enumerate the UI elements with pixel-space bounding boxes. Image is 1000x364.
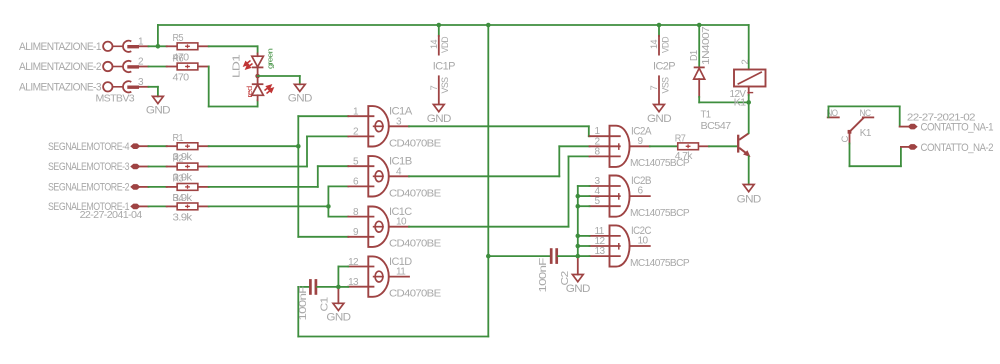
node IC2P VDD tap [657,23,662,28]
svg-text:GND: GND [647,113,672,125]
svg-text:LD1: LD1 [231,54,243,78]
svg-text:470: 470 [173,73,190,84]
svg-text:R7: R7 [675,134,686,145]
diode D1 1N4007 [694,66,705,68]
LED LD1 upper (green) [257,54,259,57]
wire rail to D1 [698,25,700,67]
connector pin ALIMENTAZIONE-1 [103,42,112,51]
wire D1 to relay bottom [698,97,700,103]
wire junction to R5 [158,45,167,47]
wire pin2 to R6 [139,66,149,68]
svg-text:100nF: 100nF [298,286,309,321]
svg-text:VSS: VSS [660,77,671,93]
resistor R5 [167,45,177,47]
svg-text:R1: R1 [173,133,184,144]
svg-text:VSS: VSS [440,77,451,93]
svg-text:T1: T1 [701,109,712,121]
svg-text:ALIMENTAZIONE-1: ALIMENTAZIONE-1 [19,41,101,53]
LED pin middle [257,67,259,84]
wire pin1 to junction [139,45,149,47]
wire IC1B out to IC2A pin2 [409,175,559,177]
svg-text:SEGNALEMOTORE-3: SEGNALEMOTORE-3 [48,161,129,173]
svg-text:GND: GND [737,193,762,205]
wire R6 to LD1 bottom [208,67,210,107]
svg-text:GND: GND [288,93,313,105]
XOR gate IC1D CD4070BE [368,256,388,296]
wire net SM3 row [209,166,307,168]
svg-text:13: 13 [595,246,606,257]
capacitor C2 100nF [488,255,550,257]
pin SEGNALEMOTORE-4 [131,144,140,149]
ground IC2P [654,105,665,112]
pin CONTATTO_NA-1 [908,124,917,129]
svg-text:2: 2 [740,60,751,65]
wire net SM4 row [209,145,299,147]
node SM1 junction [326,204,331,209]
wire SEGNALEMOTORE-4 to R1 [140,145,149,147]
pin SEGNALEMOTORE-1 [131,204,140,209]
svg-text:R2: R2 [173,153,184,164]
node tap IC2C pin11 [576,234,581,239]
resistor R4 3.9k [167,205,177,207]
ground connector pin3 [153,96,164,103]
svg-text:SEGNALEMOTORE-2: SEGNALEMOTORE-2 [48,182,129,194]
svg-text:VDD: VDD [660,36,671,53]
svg-text:GND: GND [427,113,452,125]
node VDD drop top [486,23,491,28]
svg-text:7: 7 [429,86,440,91]
wire net SM1 vertical [327,186,329,216]
wire IC1A out to IC2A pin1 [409,125,589,127]
wire R7 to T1 base [709,145,737,147]
svg-text:1N4007: 1N4007 [700,26,712,65]
svg-text:VDD: VDD [440,36,451,53]
resistor R1 3.9k [167,145,177,147]
svg-text:22-27-2021-02: 22-27-2021-02 [907,111,976,123]
node tap IC2C pin12 [576,244,581,249]
node C1/IC1D junction [336,285,341,290]
node C2/GND junction [576,254,581,259]
wire VDD vertical drop [487,25,489,337]
node SM4 junction [296,144,301,149]
svg-text:6: 6 [638,186,644,197]
wire T1 emitter to GND [748,156,750,184]
svg-text:GND: GND [146,105,171,117]
ground T1 emitter [743,185,754,192]
wire net SM1 row [209,205,329,207]
svg-text:12: 12 [348,257,359,268]
resistor R6 [167,66,177,68]
pin SEGNALEMOTORE-2 [131,185,140,190]
transistor T1 BC547 [737,135,739,153]
wire rail to relay coil [748,25,750,70]
svg-text:MC14075BCP: MC14075BCP [630,258,690,269]
LED LD1 lower (red) [252,83,264,85]
svg-text:CD4070BE: CD4070BE [389,238,441,250]
wire junction to IC1D pin13 [338,286,348,288]
relay coil K1 12V [734,70,766,87]
svg-text:K1: K1 [734,96,747,108]
svg-text:D1: D1 [688,50,700,61]
svg-text:C2: C2 [559,271,571,286]
svg-text:CONTATTO_NA-1: CONTATTO_NA-1 [921,122,994,134]
node LED midpoint [255,74,260,79]
ground C1/IC1D [337,290,339,304]
svg-text:14: 14 [429,40,440,49]
svg-text:MC14075BCP: MC14075BCP [630,208,690,219]
svg-text:C: C [840,136,851,143]
power pins IC1P [438,25,440,36]
svg-text:13: 13 [348,277,359,288]
ground LED [294,84,305,91]
wire net SM4 vertical [297,116,299,237]
svg-text:CD4070BE: CD4070BE [389,288,441,300]
svg-text:100nF: 100nF [538,258,549,293]
wire SM4 to IC1C pin9 [298,236,348,238]
wire SM1 to IC1C pin8 [328,216,348,218]
capacitor C1 100nF [309,279,312,295]
node D1 rail tap [697,23,702,28]
wire SEGNALEMOTORE-1 to R4 [140,205,149,207]
connector pin ALIMENTAZIONE-2 [103,62,112,71]
svg-text:4.7k: 4.7k [675,151,694,162]
pin SEGNALEMOTORE-3 [131,164,140,169]
svg-text:CD4070BE: CD4070BE [389,187,441,199]
power pins IC2P [658,25,660,36]
pin 7 VSS (IC1P) [438,76,440,103]
XOR gate IC1A CD4070BE [368,106,389,146]
svg-text:green: green [268,48,275,69]
wire NO to CONTATTO_NA-1 [828,106,830,117]
svg-text:10: 10 [396,217,407,228]
wire IC2B/IC2C input bus [577,186,579,256]
OR gate IC2B MC14075BCP [610,175,630,216]
wire SEGNALEMOTORE-3 to R2 [140,166,149,168]
svg-text:C1: C1 [318,297,330,312]
svg-text:14: 14 [649,40,660,49]
svg-text:9: 9 [638,136,644,147]
wire pin3 to GND [139,86,149,88]
node VDD tap to C2 [486,254,491,259]
svg-text:22-27-2041-04: 22-27-2041-04 [80,210,143,221]
svg-text:SEGNALEMOTORE-4: SEGNALEMOTORE-4 [48,141,129,153]
wire SM1 to IC1B pin6 [328,185,348,187]
node relay/collector junction [746,100,751,105]
svg-text:CONTATTO_NA-2: CONTATTO_NA-2 [921,142,994,154]
XOR gate IC1B CD4070BE [368,156,388,196]
wire rail drop to R5 [157,25,159,46]
svg-text:R4: R4 [173,193,184,204]
svg-text:CD4070BE: CD4070BE [389,137,441,149]
wire VDD top rail [158,24,749,26]
OR gate IC2A MC14075BCP [610,126,630,167]
wire net SM2 row [209,186,318,188]
svg-text:IC2P: IC2P [653,61,675,73]
LED arrows lower [265,85,274,93]
wire VDD bottom run [298,336,488,338]
relay contact K1 [827,116,840,118]
svg-text:10: 10 [638,236,649,247]
svg-text:NC: NC [860,108,872,119]
svg-text:ALIMENTAZIONE-3: ALIMENTAZIONE-3 [19,81,101,93]
wire SEGNALEMOTORE-2 to R3 [140,186,149,188]
svg-text:K1: K1 [860,127,872,139]
wire taps to IC2B pins [578,185,590,187]
connector pin ALIMENTAZIONE-3 [103,82,112,91]
wire junction to IC1D pin12 [337,267,339,287]
wire IC1C out to IC2A pin8 [409,226,569,228]
node tap IC2B pin4 [576,194,581,199]
wire T1 collector up [748,102,750,133]
svg-text:IC1P: IC1P [433,61,455,73]
resistor R7 4.7k [678,143,699,150]
pin 7 VSS (IC2P) [658,76,660,103]
svg-text:R3: R3 [173,174,184,185]
svg-text:BC547: BC547 [701,120,732,132]
node tap IC2B pin5 [576,204,581,209]
wire SM4 to IC1A pin1 [298,115,348,117]
svg-text:MSTBV3: MSTBV3 [96,93,136,104]
node junction R5/R6 feed [156,44,161,49]
svg-text:red: red [247,86,254,98]
wire C to CONTATTO_NA-2 [849,144,851,167]
XOR gate IC1C CD4070BE [368,207,388,247]
svg-text:3.9k: 3.9k [173,212,194,223]
pin number 1 (rotated dash) [747,92,753,94]
svg-text:11: 11 [396,267,406,278]
node IC1P VDD tap [437,23,442,28]
svg-text:R5: R5 [173,33,184,44]
wire LED mid to GND [258,75,300,77]
svg-text:7: 7 [649,86,660,91]
wire IC2A out to R7 [650,145,678,147]
svg-text:GND: GND [326,312,351,324]
LED arrows upper [244,61,253,69]
ground C2 bus [577,259,579,275]
ground IC1P [433,105,444,112]
svg-text:ALIMENTAZIONE-2: ALIMENTAZIONE-2 [19,61,101,73]
wire R5 to LD1 top [209,45,258,47]
resistor R2 3.9k [167,166,177,168]
resistor R3 3.9k [167,186,177,188]
OR gate IC2C MC14075BCP [610,225,630,266]
pin CONTATTO_NA-2 [908,145,917,150]
wire taps to IC2C pins [578,235,590,237]
